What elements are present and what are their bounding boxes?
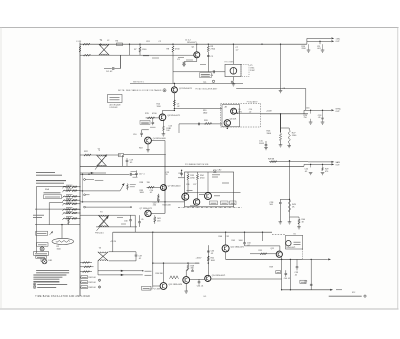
resistor ladder R3 [63, 195, 80, 197]
transistor Q6 [224, 120, 230, 126]
svg-text:470: 470 [157, 220, 160, 222]
wire vertical drop mid [262, 232, 264, 241]
svg-text:Q13 1853-0020: Q13 1853-0020 [169, 284, 183, 286]
wire left stub into box [178, 177, 185, 179]
resistor R20 [205, 122, 212, 124]
wire output rail 2 [226, 258, 303, 260]
wire out3 feed lower [303, 164, 305, 166]
node circled plus [163, 89, 166, 92]
capacitor C4 [104, 68, 112, 70]
capacitor C33 [207, 250, 210, 252]
label smudges top row [143, 55, 149, 57]
resistor ladder R1 [63, 186, 80, 188]
svg-text:.02: .02 [150, 192, 153, 194]
transistor Q3 [159, 114, 166, 121]
ground R26 [280, 141, 282, 145]
svg-text:P/O A2 ASSY: P/O A2 ASSY [247, 101, 259, 104]
wire T3 top [80, 214, 135, 216]
resistor R24 drop [310, 110, 312, 113]
svg-text:R50 330: R50 330 [156, 273, 163, 275]
ground Q1 emitter [182, 63, 186, 65]
wire mid vertical to ground [280, 44, 282, 90]
wire T4 out pair 2 [98, 274, 143, 276]
transformer T2 [96, 155, 106, 166]
resistor R22 [84, 154, 91, 156]
svg-text:R45: R45 [232, 240, 235, 242]
wire Q10 collector [225, 232, 227, 245]
resistor R27 [288, 130, 290, 143]
test point label box [200, 73, 212, 78]
resistor ladder R5 [63, 203, 80, 205]
svg-text:100: 100 [166, 130, 169, 132]
wire Q1 row lower [130, 83, 243, 85]
transistor Q5 [231, 108, 237, 114]
transistor Q14 [205, 275, 211, 281]
page bottom edge [0, 308, 399, 310]
wire osc out vertical [305, 89, 307, 111]
wire sync riser [303, 110, 305, 114]
page left edge [0, 28, 2, 310]
dashed box edge [302, 249, 304, 259]
switch box S1A [37, 185, 67, 187]
power box 2 [36, 256, 47, 259]
svg-text:470: 470 [325, 171, 328, 173]
svg-text:2200: 2200 [302, 48, 306, 50]
svg-text:330: 330 [191, 268, 194, 270]
transistor Q9 [205, 193, 212, 200]
testpoint mark a [98, 279, 100, 281]
svg-text:C26: C26 [186, 184, 189, 186]
wire row C to corner [124, 154, 166, 156]
svg-text:C2: C2 [159, 41, 161, 43]
node sync junctions [310, 110, 311, 111]
wire output bottom rail [282, 289, 331, 291]
transistor Q8 [182, 193, 189, 200]
ground R27 [288, 143, 290, 145]
wire T1 lower-left vertical [120, 55, 122, 68]
capacitor C3 [184, 61, 197, 63]
wire divider feed upper [174, 108, 222, 110]
svg-text:R63 10K: R63 10K [89, 287, 97, 289]
capacitor C41 [310, 283, 313, 285]
wire Q7 right [151, 212, 165, 214]
wire Q4 base feed [151, 140, 165, 142]
svg-text:10UF: 10UF [259, 143, 265, 145]
power box 1 [34, 252, 49, 256]
transistor Q11 [276, 251, 282, 257]
wire power rail [35, 224, 80, 226]
node out3 junctions [310, 164, 311, 165]
wire S1B row4 [80, 190, 120, 192]
svg-text:.01: .01 [139, 258, 142, 260]
arrow out3 b [331, 163, 334, 165]
svg-text:1854-0071: 1854-0071 [187, 42, 198, 44]
wire oscillator output [236, 88, 306, 90]
value box 1 [210, 201, 218, 205]
transformer T1 [99, 44, 109, 55]
wire out1 riser a [306, 38, 308, 44]
svg-text:C36 .01: C36 .01 [197, 286, 203, 288]
page top edge [0, 27, 399, 29]
resistor R17 Q3 emitter [162, 121, 164, 126]
svg-text:.02: .02 [211, 253, 214, 255]
resistor R33 [187, 172, 189, 174]
capacitor C17 [135, 172, 138, 174]
resistor R43 [288, 200, 290, 212]
svg-text:1 MC: 1 MC [250, 70, 255, 72]
wire box internal rail [185, 192, 234, 194]
svg-text:FREQ ADJ: FREQ ADJ [95, 231, 104, 234]
wire main mid vertical [164, 155, 166, 214]
svg-text:.01: .01 [169, 128, 172, 130]
node Q6 bottom lead [226, 126, 228, 129]
boxed label R16 [140, 121, 150, 125]
wire Q11 top [279, 246, 281, 251]
ground C28 [279, 221, 283, 223]
lamp B1 circle [286, 241, 291, 246]
wire T3 right vertical [134, 215, 136, 232]
label smudges box A3 [212, 174, 220, 176]
svg-text:C4 .02: C4 .02 [106, 71, 113, 73]
notes heading reference designators [33, 281, 59, 283]
svg-text:R52: R52 [352, 292, 355, 294]
ground out3 b [321, 172, 325, 174]
svg-text:+140V: +140V [266, 110, 272, 112]
svg-text:R38: R38 [140, 182, 144, 184]
wire bus to T4 [112, 232, 114, 251]
capacitor C22 at box left [180, 172, 183, 174]
resistor R52 [207, 256, 209, 261]
capacitor C8 below crystal [232, 77, 234, 81]
wire T2 bottom long [80, 165, 304, 167]
svg-text:C32: C32 [226, 236, 229, 238]
svg-text:750: 750 [304, 117, 307, 119]
test point TP1 [212, 80, 214, 82]
transistor Q10 [222, 245, 229, 252]
note symbol 2 [33, 286, 36, 289]
resistor R38 [147, 186, 161, 188]
svg-text:Q7 1854-0071: Q7 1854-0071 [140, 208, 153, 210]
wire Q11 top feed [245, 245, 280, 247]
dashed box A2 divider [221, 103, 261, 127]
transistor Q12 [183, 277, 190, 284]
wire out1 lower [307, 40, 331, 42]
switch position box [44, 195, 62, 199]
resistor R7 between buses [139, 44, 141, 47]
testpoint mark b [98, 286, 100, 288]
svg-text:L1 33: L1 33 [77, 41, 82, 43]
svg-text:C16: C16 [306, 108, 309, 110]
component C18 on wire [119, 153, 124, 156]
capacitor C10 [140, 132, 143, 134]
svg-text:R7: R7 [134, 49, 137, 51]
transistor Q4 [145, 137, 152, 144]
capacitor C19 [126, 158, 128, 160]
capacitor C35 [192, 269, 194, 270]
wire Q13 top [163, 263, 165, 283]
resistor R44 drop [298, 217, 300, 218]
notes voltage text [36, 172, 55, 174]
chassis dash line below box [178, 207, 242, 209]
wire main left frame vertical [79, 43, 81, 297]
wire Q11 emitter drop [281, 257, 283, 290]
svg-text:Q7 1853-0020: Q7 1853-0020 [168, 186, 181, 188]
resistor R4 input top [83, 43, 90, 45]
wire top supply bus [80, 43, 307, 45]
lamp DS2 [40, 247, 44, 251]
wire Q14 top feed [207, 245, 209, 275]
transistor Q7a [161, 185, 167, 191]
svg-text:C10: C10 [133, 134, 136, 136]
transformer T3 [98, 215, 108, 227]
ground out3 a [309, 172, 313, 174]
node T4 pair junction [142, 270, 143, 271]
svg-text:8-9: 8-9 [204, 296, 207, 298]
capacitor C18 drop [322, 110, 324, 117]
svg-text:R62 10K: R62 10K [89, 282, 97, 284]
wire switch long rail [35, 208, 80, 210]
svg-text:SEE NOTE 1: SEE NOTE 1 [133, 81, 144, 83]
capacitor C28 [280, 198, 289, 200]
resistor R55 [260, 253, 267, 255]
svg-text:R55: R55 [259, 250, 262, 252]
svg-text:R40 100K: R40 100K [163, 204, 172, 206]
svg-text:Q6 0071: Q6 0071 [230, 118, 237, 120]
transistor Q1 [194, 52, 200, 58]
wire T4 bottom [109, 260, 136, 262]
svg-text:.02: .02 [177, 106, 180, 108]
svg-text:1000: 1000 [239, 240, 243, 242]
arrow T3 tuning [97, 216, 109, 230]
node Q14 junctions [208, 262, 209, 263]
svg-text:.05: .05 [130, 162, 133, 164]
resistor R26 [279, 134, 281, 141]
series element on feed [198, 123, 200, 126]
wire T4 out pair 1 [98, 270, 143, 272]
transistor Q2 [171, 87, 177, 93]
svg-text:DS1: DS1 [49, 260, 53, 262]
drop out3 a [310, 164, 312, 167]
resistor R35 cluster [127, 182, 129, 185]
wire sawtooth feed [269, 161, 308, 163]
svg-text:P/O A1 OSCILLATOR ASSY: P/O A1 OSCILLATOR ASSY [196, 88, 219, 91]
resistor ladder R4 [63, 199, 80, 201]
diode CR2 on box top [213, 170, 216, 172]
text S1 label [33, 214, 44, 216]
wire T2 top [80, 154, 121, 156]
arrow out3 a [331, 161, 334, 163]
svg-text:Q4 1853-0020: Q4 1853-0020 [153, 138, 167, 140]
ground mid vertical [279, 90, 283, 92]
wire divider feed left vertical [178, 124, 180, 133]
wire Q1 collector [196, 44, 198, 52]
resistor ladder R2 [63, 190, 80, 192]
wire crystal top feed [232, 44, 234, 64]
transistor Q7 [145, 210, 151, 216]
capacitor C12 [152, 118, 154, 122]
resistor R28 series [270, 161, 277, 163]
resistor ladder R8 [63, 217, 80, 219]
wire stub after arrow [336, 289, 342, 291]
capacitor C39 [296, 259, 298, 266]
resistor ladder R6 [63, 208, 80, 210]
svg-text:R46: R46 [219, 236, 222, 238]
value box 3 [230, 201, 236, 205]
lamp box B1 [286, 235, 303, 249]
svg-text:Q3 1854-0071: Q3 1854-0071 [167, 115, 181, 117]
wire divider feed lower [179, 123, 222, 125]
ground R24 [310, 119, 312, 122]
svg-text:S1A: S1A [45, 188, 49, 191]
svg-text:1000: 1000 [211, 260, 215, 262]
arrow output rail 2 [328, 258, 331, 260]
resistor R14 [173, 100, 175, 106]
ground C18 [322, 119, 324, 122]
crystal Y1 [230, 68, 237, 75]
resistor vernier drop [68, 218, 70, 219]
transistor Q13 [160, 283, 167, 290]
arrow sync out [331, 109, 334, 111]
page right edge [397, 28, 399, 310]
notes block [36, 269, 69, 271]
wire Q12 top [185, 270, 187, 277]
resistor R41 [154, 215, 156, 216]
ground Q12 [185, 283, 187, 290]
svg-text:.05: .05 [141, 219, 144, 221]
wire Q4 corner vertical [164, 141, 166, 155]
lamp DS1 box [108, 95, 123, 103]
capacitor C30 [130, 215, 132, 219]
arrow out1 b [331, 40, 334, 42]
svg-text:C17 .1: C17 .1 [139, 174, 145, 176]
svg-text:CR2: CR2 [218, 170, 222, 172]
wire stub left [195, 262, 200, 264]
wire lower bus dashed [272, 234, 286, 236]
wire T1 secondary [80, 54, 194, 56]
contact circle row5 [84, 194, 86, 196]
resistor R34 [197, 172, 199, 174]
arrow output bottom [330, 289, 333, 291]
svg-text:A3: A3 [225, 106, 227, 109]
lamp DS3 [42, 259, 47, 264]
node junction T1 top [100, 44, 101, 45]
potentiometer body oval [52, 238, 74, 244]
resistor R15 [146, 117, 160, 119]
wire switch rail 1 [49, 202, 63, 204]
wire lower bus [113, 231, 272, 233]
svg-text:R61 10K: R61 10K [89, 277, 97, 279]
resistor R59 value box [276, 271, 281, 274]
drop out3 b [322, 164, 324, 167]
capacitor C31 [139, 215, 141, 221]
capacitor C36 [198, 279, 200, 281]
wire pot vertical [61, 225, 63, 239]
oven dashed box [241, 64, 249, 76]
ground R44 [297, 226, 301, 228]
vertical x311 drop [310, 259, 312, 289]
inductor L1 on frame [79, 46, 81, 52]
arrow T2 tuning [95, 154, 107, 169]
svg-text:TIME BASE OSCILLATOR AND AMPLI: TIME BASE OSCILLATOR AND AMPLIFIER [35, 295, 90, 298]
component box row6 [80, 286, 81, 288]
wire bottom left vertical [152, 232, 154, 287]
contact circle row2 [84, 179, 86, 181]
resistor R9 [207, 44, 209, 46]
svg-text:P/O RANGE SWITCH S1B: P/O RANGE SWITCH S1B [185, 163, 209, 166]
resistor R48 [187, 263, 189, 264]
svg-text:C40 .02: C40 .02 [284, 278, 290, 280]
capacitor C40 [285, 272, 288, 274]
inner box divider module [222, 105, 240, 127]
ground Q3 [162, 133, 166, 135]
svg-text:.05: .05 [295, 274, 298, 276]
pot R1 vernier box [36, 231, 48, 235]
capacitor C5 [207, 55, 210, 57]
svg-text:Q11: Q11 [271, 248, 275, 250]
wire second drop [289, 259, 291, 289]
ground crystal [232, 82, 234, 83]
ground out1 a [308, 44, 310, 50]
wire out3 upper [308, 161, 331, 163]
wire out1 riser b [319, 41, 321, 44]
resistor ladder2 row1 [80, 262, 92, 264]
value box 2 [221, 201, 229, 205]
svg-text:.001: .001 [317, 48, 321, 50]
wire long output rail [211, 278, 282, 280]
wire heavy drop [280, 114, 282, 133]
testpoint box TP2 [142, 286, 151, 290]
svg-text:.05: .05 [318, 117, 321, 119]
transformer T4 [98, 252, 108, 261]
svg-text:250: 250 [153, 205, 156, 207]
svg-text:R28 68: R28 68 [268, 158, 274, 160]
wire T4 top [109, 251, 136, 253]
capacitor C37 on T4 vertical [135, 254, 138, 256]
svg-text:C27: C27 [193, 184, 196, 186]
svg-text:1854-0071: 1854-0071 [286, 247, 295, 249]
capacitor C21 row1 end [129, 173, 131, 176]
svg-text:CR1: CR1 [146, 41, 150, 43]
wire out3 lower [304, 163, 331, 165]
resistor ladder2 row2 [80, 266, 94, 268]
pot wiper arrow [50, 231, 54, 234]
wire out1 upper [307, 37, 331, 39]
svg-text:R59: R59 [270, 267, 273, 269]
wire lamp stub [40, 258, 42, 261]
wire box output stub [234, 191, 241, 193]
svg-text:1800: 1800 [203, 112, 207, 114]
component box row5 [80, 281, 81, 283]
wire Q11 row [250, 253, 276, 255]
svg-text:1500: 1500 [57, 248, 61, 250]
svg-text:15: 15 [166, 174, 168, 176]
resistor R40 [157, 194, 159, 195]
wire Q2 emitter vertical [173, 93, 175, 109]
svg-text:Q10 1854-0071: Q10 1854-0071 [231, 247, 245, 249]
wire divider output to sync [261, 113, 308, 115]
svg-text:B1: B1 [294, 233, 296, 235]
note symbol 1 [33, 283, 36, 286]
wire T1 right vertical [129, 44, 131, 55]
svg-text:P/O OVEN: P/O OVEN [225, 62, 235, 64]
component box row4 [80, 276, 81, 278]
label smudges T3 [117, 217, 123, 219]
wire R43 vertical [289, 161, 291, 217]
crystal Y1 oven box [225, 64, 241, 76]
capacitor C6 series [212, 70, 214, 73]
oscillator box A3 [185, 172, 234, 207]
transistor Q10a [193, 199, 199, 205]
